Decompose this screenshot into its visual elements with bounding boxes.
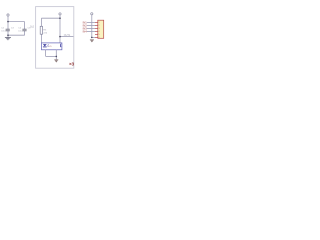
svg-text:1k2: 1k2 [30,25,35,28]
svg-text:IN4: IN4 [83,29,88,33]
svg-text:OUT1: OUT1 [64,34,71,37]
svg-text:×3: ×3 [69,61,75,66]
